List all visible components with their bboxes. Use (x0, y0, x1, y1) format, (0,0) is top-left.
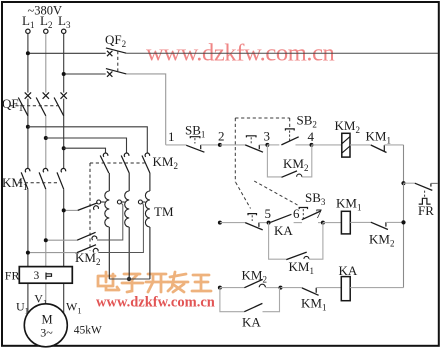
contact KM2 NC (after KM1 coil) (369, 222, 404, 248)
contactor KM2 aux NO (row3) (242, 268, 281, 288)
svg-text:KA: KA (242, 315, 261, 330)
node 4 (308, 129, 342, 147)
svg-text:2: 2 (218, 129, 225, 144)
子 (122, 274, 143, 292)
wire feed L1 to KM2 pole3 (28, 127, 147, 153)
contact KM1 NC (after KM2 coil) (350, 129, 404, 184)
svg-text:3: 3 (264, 129, 271, 144)
junction row2 left (218, 221, 245, 225)
relay contact KA NO (5-6) (271, 214, 302, 238)
breaker QF2 (105, 32, 126, 77)
contactor KM2 main contacts (90, 153, 178, 250)
node 3 (264, 129, 280, 147)
node 6 and pushbutton SB3 (NO) (293, 190, 326, 223)
terminal L3 (58, 13, 71, 34)
watermark www.dzkfw.com.cn bottom (96, 295, 215, 311)
coil KA (339, 263, 404, 301)
wire control feed after QF2 (126, 74, 165, 145)
svg-text:5: 5 (265, 206, 272, 221)
svg-text:1: 1 (168, 129, 175, 144)
svg-text:KA: KA (339, 263, 358, 278)
wire L1 column (27, 34, 29, 314)
SB3 linked NC contact (row2) (245, 214, 268, 230)
junction (401, 181, 405, 185)
terminal L1 (22, 13, 34, 34)
svg-text:TM: TM (154, 204, 174, 219)
svg-text:3: 3 (34, 270, 40, 282)
contactor KM2 tap contact A (62, 203, 99, 213)
junction row3 left (218, 286, 245, 290)
pushbutton SB1 (NC stop) (185, 123, 220, 153)
motor M (16, 292, 102, 347)
terminal L2 (40, 13, 52, 34)
autotransformer TM (97, 173, 174, 281)
wire feed L3 to KM2 pole1 (64, 148, 106, 152)
svg-text:M: M (42, 313, 53, 327)
电 (98, 272, 119, 290)
star point (109, 278, 150, 280)
svg-text:4: 4 (308, 129, 315, 144)
svg-text:45kW: 45kW (74, 325, 102, 337)
contactor KM1 aux NO bypass (5-7) (269, 223, 323, 276)
junction (62, 146, 66, 150)
coil KM1 (336, 196, 371, 234)
svg-text:FR: FR (5, 269, 20, 283)
junction (26, 51, 30, 55)
node 2 (218, 129, 245, 147)
开 (146, 274, 168, 292)
svg-text:FR: FR (418, 203, 434, 218)
watermark 电子开发王 (98, 272, 211, 292)
wire top rail after QF2 (126, 52, 438, 54)
王 (192, 275, 211, 291)
pushbutton SB2 (NO start) (281, 113, 317, 145)
wire L2 column (45, 34, 47, 304)
breaker QF1 (2, 92, 67, 115)
svg-text:7: 7 (316, 206, 323, 221)
SB2 linked NC contact (2-3) (245, 136, 267, 152)
contact KM1 NC (row3) (301, 288, 341, 313)
wire feed L2 to KM2 pole2 (46, 138, 127, 153)
junction (62, 72, 66, 76)
contact FR NC (404, 183, 438, 218)
relay contact KA NO self-hold (220, 288, 280, 330)
wire control feed to QF2 (64, 73, 106, 75)
node 7 (316, 206, 342, 225)
contactor KM2 tap contact B (44, 203, 123, 242)
contactor KM2 aux NO self-hold (267, 145, 311, 177)
contactor KM2 tap contact C (26, 203, 143, 267)
junction (44, 136, 48, 140)
thermal relay FR box (5, 267, 73, 284)
svg-text:www.dzkfw.com.cn: www.dzkfw.com.cn (96, 295, 215, 311)
watermark www.dzkfw.com.cn top (146, 40, 335, 67)
wire L3 column (63, 34, 65, 314)
contactor KM1 main contacts (2, 168, 66, 192)
junction (279, 286, 302, 290)
junction (26, 125, 30, 129)
coil KM2 (335, 118, 360, 157)
tap terminal circles (97, 200, 101, 204)
junction (401, 220, 405, 224)
svg-text:3~: 3~ (40, 326, 53, 340)
发 (168, 272, 188, 292)
label ~380V (28, 4, 63, 18)
mechanical linkage dashed box SB2 (235, 118, 297, 209)
rail right vertical (403, 183, 405, 287)
svg-text:KA: KA (274, 223, 293, 238)
node 5 (265, 206, 272, 225)
control row 1 node 1 (166, 129, 187, 145)
wire top rail to QF2 (28, 52, 106, 54)
